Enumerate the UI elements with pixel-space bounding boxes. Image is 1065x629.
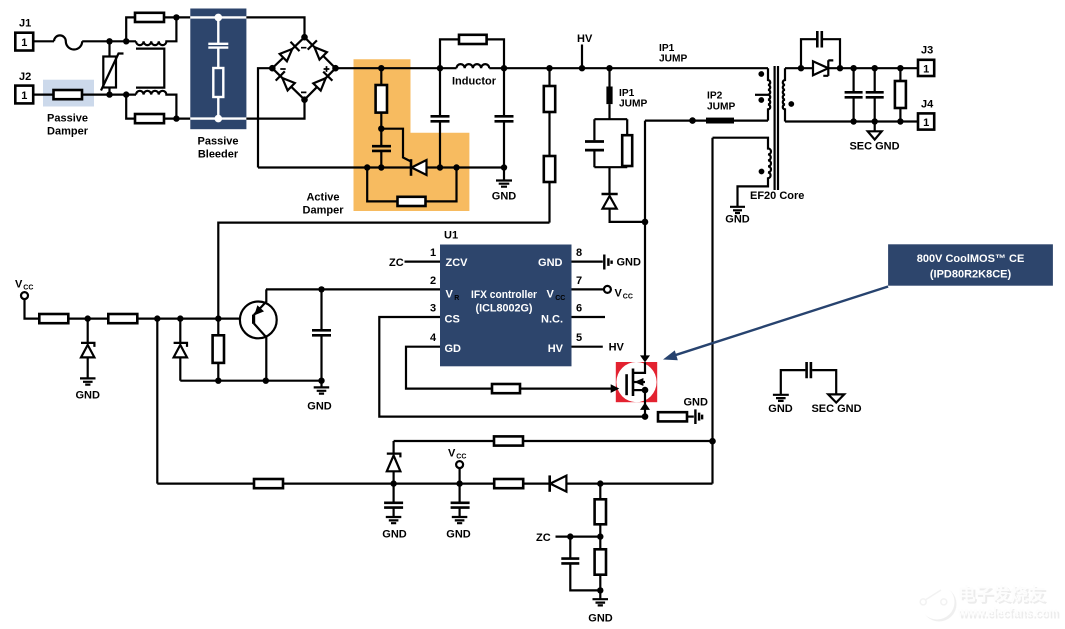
transformer primary winding: [768, 68, 770, 120]
bleeder node top: [215, 14, 223, 22]
svg-text:800V CoolMOS™ CE: 800V CoolMOS™ CE: [917, 253, 1025, 265]
bleeder bottom rail (white): [190, 117, 246, 119]
ground symbol aux winding: [730, 207, 745, 213]
svg-text:V: V: [547, 289, 555, 301]
op-amp U1 IFX controller (ICL8002G): [440, 245, 572, 367]
primary tap stub: [755, 94, 768, 96]
inductor bypass resistor: [440, 39, 504, 68]
svg-text:GND: GND: [446, 529, 471, 541]
svg-text:1: 1: [21, 90, 27, 102]
svg-text:GND: GND: [307, 401, 332, 413]
sec ground symbol: [874, 122, 876, 132]
wire RC to diode: [608, 167, 610, 194]
bridge vertex nodes: [301, 34, 308, 41]
svg-text:4: 4: [430, 332, 437, 344]
Vcc filter capacitor 2: [459, 484, 461, 517]
charge rail junctions: [390, 480, 396, 486]
charge rail resistor 2: [494, 479, 523, 488]
svg-text:HV: HV: [548, 343, 564, 355]
svg-text:IP1: IP1: [659, 43, 675, 54]
Vcc series resistor 1: [39, 314, 68, 323]
svg-text:ZC: ZC: [389, 257, 404, 269]
drain current arrow: [640, 355, 650, 362]
svg-text:U1: U1: [444, 230, 458, 242]
primary phase dots: [758, 71, 764, 77]
svg-text:J4: J4: [921, 98, 934, 110]
wire pin 4 GD to gate resistor: [406, 347, 492, 389]
gate resistor: [492, 384, 520, 393]
bridge diode bottom-right: [313, 78, 325, 90]
svg-text:Passive: Passive: [47, 113, 88, 125]
secondary top rail: [785, 67, 918, 69]
fuse F1: [54, 35, 82, 49]
watermark text: [957, 584, 1060, 622]
aux feedback vertical wire: [711, 138, 713, 484]
svg-text:Passive: Passive: [198, 136, 239, 148]
transformer core: [775, 66, 778, 190]
svg-text:2: 2: [430, 275, 436, 287]
snubber RC capacitor: [594, 119, 627, 167]
ground symbol D1: [80, 378, 96, 384]
ground symbol primary side: [773, 395, 789, 401]
drain node: [642, 219, 649, 226]
choke bottom bypass resistor: [126, 95, 190, 119]
svg-text:5: 5: [576, 332, 582, 344]
ground symbol cap 1: [386, 517, 402, 523]
svg-text:CC: CC: [555, 295, 565, 302]
filter capacitor C1: [439, 68, 441, 167]
wire bleeder to bridge top: [246, 17, 304, 37]
wire damper to choke: [82, 93, 136, 95]
IP2 jumper: [706, 118, 734, 124]
common-mode choke bottom winding: [136, 91, 176, 119]
svg-text:SEC GND: SEC GND: [849, 141, 899, 153]
svg-text:JUMP: JUMP: [659, 54, 688, 65]
ground symbol source resistor: [695, 409, 702, 424]
callout arrow: [672, 287, 888, 357]
wire fuse to choke: [82, 40, 136, 42]
reference capacitor: [320, 289, 322, 380]
svg-text:Bleeder: Bleeder: [198, 149, 239, 161]
transformer aux winding: [713, 138, 772, 207]
transistor Q2 CoolMOS MOSFET: [633, 362, 645, 373]
charge rail resistor 1: [254, 479, 283, 488]
wire pin 3 CS to source sense: [379, 317, 645, 417]
choke core: [136, 49, 164, 88]
connector J4: [918, 113, 934, 129]
bridge diode top-right: [314, 47, 327, 60]
source node: [642, 413, 649, 420]
connector J2: [15, 86, 33, 104]
ground symbol ZC divider: [593, 599, 609, 605]
active damper highlight: [354, 59, 470, 211]
svg-text:CC: CC: [23, 285, 33, 292]
svg-text:EF20 Core: EF20 Core: [750, 190, 804, 202]
Vcc supply rail resistor: [394, 440, 494, 442]
ground symbol cap 2: [452, 517, 468, 523]
watermark logo: [920, 585, 957, 622]
wire feedback long vertical: [156, 319, 158, 484]
svg-text:J1: J1: [19, 18, 31, 30]
svg-text:(IPD80R2K8CE): (IPD80R2K8CE): [930, 268, 1012, 280]
output diode: [813, 61, 828, 75]
svg-text:GND: GND: [538, 257, 563, 269]
svg-text:SEC GND: SEC GND: [811, 403, 861, 415]
main HV rail: [336, 67, 769, 69]
active damper loop resistor: [367, 168, 456, 202]
junction top line: [106, 38, 112, 44]
ground symbol reference: [320, 381, 322, 387]
Y-capacitor link: [781, 370, 836, 394]
svg-text:Active: Active: [306, 192, 339, 204]
divider resistor chain upper: [548, 68, 550, 156]
wire pin 8 to ground: [572, 261, 603, 263]
svg-text:GND: GND: [492, 191, 517, 203]
svg-text:GND: GND: [617, 257, 642, 269]
wire bleeder to bridge bottom: [246, 100, 304, 119]
Vcc filter capacitor 1: [393, 484, 395, 517]
choke top bypass resistor: [126, 17, 190, 41]
sec ground symbol Y-cap: [828, 394, 844, 402]
ground symbol damper rail: [503, 168, 505, 181]
svg-text:CS: CS: [445, 313, 460, 325]
svg-text:6: 6: [576, 302, 582, 314]
svg-text:N.C.: N.C.: [541, 313, 563, 325]
wire divider to CS network: [218, 223, 549, 319]
svg-text:GND: GND: [725, 214, 750, 226]
thyristor gate wire: [381, 129, 411, 162]
svg-text:8: 8: [576, 247, 582, 259]
wire emitter to pin 2: [266, 288, 440, 290]
rail junctions: [378, 65, 384, 71]
zener diode D3: [393, 441, 395, 454]
active damper capacitor: [372, 146, 391, 151]
output capacitor 1: [852, 68, 854, 121]
svg-text:3: 3: [430, 302, 436, 314]
svg-text:R: R: [454, 295, 459, 302]
svg-text:HV: HV: [577, 33, 593, 45]
callout box 800V CoolMOS CE: [888, 244, 1053, 285]
emitter bottom rail: [180, 380, 321, 382]
svg-text:www.elecfans.com: www.elecfans.com: [957, 605, 1058, 620]
clamp diode: [602, 193, 618, 196]
svg-text:GND: GND: [768, 403, 793, 415]
wire Vcc to resistor: [25, 299, 40, 319]
ZC divider resistor lower: [599, 575, 601, 599]
svg-text:IFX controller: IFX controller: [471, 289, 538, 301]
svg-text:V: V: [446, 289, 454, 301]
wire diode to drain line: [610, 209, 645, 222]
active damper resistor: [380, 68, 382, 146]
wire pin 5 to HV node: [572, 346, 603, 348]
passive damper highlight: [43, 80, 94, 107]
svg-text:CC: CC: [623, 294, 633, 301]
zener diode D1: [87, 319, 89, 343]
wire gate resistor to MOSFET: [520, 388, 627, 390]
svg-text:电子发烧友: 电子发烧友: [958, 584, 1045, 604]
transformer secondary winding: [783, 68, 785, 121]
bleeder node bottom: [215, 115, 223, 123]
svg-text:V: V: [615, 288, 623, 300]
bleeder top rail (white): [190, 16, 246, 18]
svg-text:GND: GND: [75, 390, 100, 402]
svg-text:J3: J3: [921, 45, 933, 57]
svg-text:JUMP: JUMP: [619, 99, 648, 110]
svg-text:GND: GND: [588, 613, 613, 625]
svg-text:ZCV: ZCV: [446, 257, 469, 269]
wire J2 to damper resistor: [33, 93, 53, 95]
wire ZC to divider: [556, 535, 601, 537]
svg-text:1: 1: [923, 117, 929, 129]
wire between resistors: [68, 318, 108, 320]
Vcc charge rail: [157, 483, 712, 485]
damper ground rail: [258, 166, 504, 168]
bridge diode top-left: [280, 49, 293, 61]
IP1 jumper: [608, 68, 610, 119]
charge diode D4: [548, 475, 551, 491]
svg-text:GD: GD: [445, 343, 462, 355]
svg-text:V: V: [15, 279, 23, 291]
IP2 jumper wire: [645, 119, 768, 121]
source current arrow: [640, 403, 650, 410]
bridge diode bottom-left: [282, 78, 295, 90]
bleeder resistor: [213, 68, 223, 97]
svg-text:IP1: IP1: [619, 88, 635, 99]
base divider resistor: [217, 319, 219, 381]
svg-text:1: 1: [21, 37, 27, 49]
svg-text:ZC: ZC: [536, 532, 551, 544]
svg-text:(ICL8002G): (ICL8002G): [476, 303, 533, 315]
secondary phase dot: [788, 101, 794, 107]
svg-text:7: 7: [576, 275, 582, 287]
zener diode D2: [179, 319, 181, 343]
wire to transistor base: [137, 318, 252, 320]
svg-text:GND: GND: [382, 529, 407, 541]
svg-text:J2: J2: [19, 71, 31, 83]
connector J3: [918, 60, 934, 76]
svg-text:IP2: IP2: [707, 91, 723, 102]
node Vcc pin 7: [604, 286, 611, 293]
divider resistor chain lower: [548, 182, 550, 223]
secondary rail junctions: [837, 65, 843, 71]
wire ZC to pin 1: [405, 261, 441, 263]
svg-text:Damper: Damper: [303, 205, 345, 217]
svg-text:1: 1: [923, 64, 929, 76]
svg-text:HV: HV: [609, 342, 625, 354]
Vcc series resistor 2: [108, 314, 137, 323]
aux phase dot: [759, 169, 765, 175]
inductor L1: [457, 64, 490, 68]
svg-text:Inductor: Inductor: [452, 76, 497, 88]
svg-text:JUMP: JUMP: [707, 102, 736, 113]
output load resistor: [899, 68, 901, 121]
output capacitor 2: [874, 68, 876, 121]
bridge rectifier diamond: [272, 37, 335, 99]
snubber RC resistor: [626, 119, 628, 167]
svg-text:1: 1: [430, 247, 436, 259]
varistor RV1: [108, 41, 110, 94]
wire J1 to fuse: [33, 40, 54, 42]
CoolMOS highlight box: [616, 362, 657, 402]
svg-text:V: V: [448, 448, 456, 460]
junction bottom line: [106, 91, 112, 97]
passive bleeder highlight box: [190, 9, 246, 130]
wire pin 6 N.C.: [572, 316, 606, 318]
transistor Q1: [240, 302, 277, 339]
output diode snubber capacitor: [801, 39, 840, 68]
thyristor: [410, 159, 413, 176]
ground symbol pin 8: [604, 255, 611, 270]
secondary bottom rail: [785, 120, 918, 122]
connector J1: [15, 33, 33, 51]
ZC divider resistor upper: [599, 484, 601, 550]
svg-text:GND: GND: [684, 397, 709, 409]
common-mode choke top winding: [136, 17, 176, 45]
svg-text:CC: CC: [456, 454, 466, 461]
bridge polarity marks: [280, 48, 329, 93]
svg-text:Damper: Damper: [47, 126, 89, 138]
bleeder capacitor: [208, 17, 228, 68]
drain vertical wire: [644, 121, 646, 356]
wire pin 7 to Vcc: [572, 288, 604, 290]
wire bridge minus to damper rail: [258, 68, 272, 167]
source sense resistor: [658, 412, 687, 421]
filter capacitor C2: [503, 68, 505, 167]
passive damper resistor: [54, 90, 83, 99]
ZC filter capacitor: [570, 537, 600, 591]
